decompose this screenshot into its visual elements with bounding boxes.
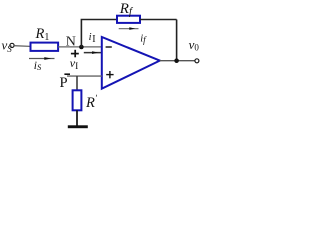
terminal vS (10, 43, 14, 47)
wire P to op-amp plus input (67, 75, 102, 77)
wire down to output node (176, 20, 178, 61)
op-amp plus sign (106, 71, 113, 78)
current arrow iS (29, 57, 55, 60)
current arrow if (119, 27, 139, 30)
svg-text:i: i (89, 32, 92, 43)
ground (68, 125, 88, 128)
svg-text:N: N (66, 34, 76, 49)
polarity plus of vI (71, 50, 79, 58)
output wire from op-amp (160, 60, 195, 62)
wire down from P rail to resistor R (76, 76, 78, 90)
svg-text:I: I (92, 34, 95, 45)
current arrow iI (84, 51, 102, 54)
wire R1 to node N (58, 46, 102, 48)
terminal vO (195, 59, 199, 63)
svg-text:P: P (60, 75, 68, 91)
resistor R1 (31, 43, 59, 51)
feedback wire up from node N (81, 20, 116, 48)
op-amp U1 (102, 37, 160, 89)
polarity minus of vI (64, 73, 70, 75)
wire vS to R1 (14, 45, 30, 48)
wire R to ground (76, 110, 78, 125)
output junction dot (174, 58, 179, 63)
svg-text:iS: iS (34, 60, 42, 72)
wire Rf to right corner (140, 19, 177, 21)
resistor R (73, 90, 82, 110)
node N junction dot (79, 45, 84, 50)
resistor Rf (117, 16, 140, 23)
op-amp minus sign (106, 46, 112, 48)
